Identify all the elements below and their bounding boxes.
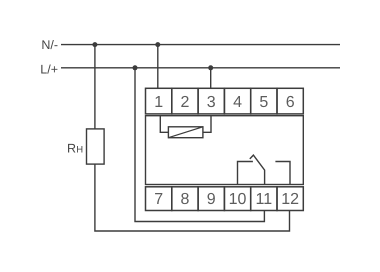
svg-text:1: 1 [154, 94, 163, 111]
net label L/+ [40, 63, 58, 77]
device body box [146, 116, 304, 185]
svg-text:R: R [67, 142, 76, 156]
terminal 2 [172, 88, 198, 114]
svg-text:4: 4 [233, 94, 242, 111]
value label RH [67, 142, 83, 156]
junction on L/+ to bottom branch [133, 65, 138, 70]
svg-text:5: 5 [259, 94, 268, 111]
junction on N/- to terminal 1 branch [155, 42, 160, 47]
terminal 6 [277, 88, 303, 114]
terminal 12 [277, 187, 303, 211]
resistor RH [87, 129, 105, 164]
wire terminal 1 down to internal element [160, 116, 168, 133]
terminal 11 [251, 187, 277, 211]
wire L/+ bus line [61, 67, 340, 69]
svg-text:N/-: N/- [41, 38, 58, 52]
junction on L/+ to terminal 3 branch [208, 65, 213, 70]
svg-text:9: 9 [207, 191, 216, 208]
svg-text:11: 11 [256, 191, 273, 208]
wire RH down, right along bottom, up to terminal 12 [95, 164, 290, 231]
svg-text:H: H [76, 145, 83, 156]
junction on N/- to RH branch [92, 42, 97, 47]
relay contact: movable arm to terminal 11 [250, 155, 265, 184]
internal supply element (box with diagonal) [168, 127, 203, 138]
svg-text:7: 7 [154, 191, 163, 208]
terminal 8 [172, 187, 198, 211]
wire N/- bus line [61, 44, 340, 46]
svg-text:6: 6 [286, 94, 295, 111]
svg-text:12: 12 [281, 191, 299, 208]
relay contact: terminal 12 fixed contact [275, 162, 290, 185]
terminal 5 [251, 88, 277, 114]
wire L/+ down to terminal 3 [210, 68, 212, 89]
terminal 9 [198, 187, 224, 211]
svg-text:8: 8 [180, 191, 189, 208]
net label N/- [41, 38, 58, 52]
svg-text:3: 3 [207, 94, 216, 111]
wire L/+ down, right along bottom, up to terminal 11 [135, 68, 264, 222]
svg-text:10: 10 [229, 191, 247, 208]
svg-text:2: 2 [180, 94, 189, 111]
wire internal element to terminal 3 [203, 116, 211, 133]
terminal 7 [146, 187, 172, 211]
terminal 1 [146, 88, 172, 114]
terminal 4 [224, 88, 250, 114]
wire N/- down to RH [94, 45, 96, 129]
terminal 10 [224, 187, 250, 211]
svg-text:L/+: L/+ [40, 63, 58, 77]
terminal 3 [198, 88, 224, 114]
relay contact: terminal 10 fixed contact [238, 162, 253, 185]
wire N/- down to terminal 1 [157, 45, 159, 89]
